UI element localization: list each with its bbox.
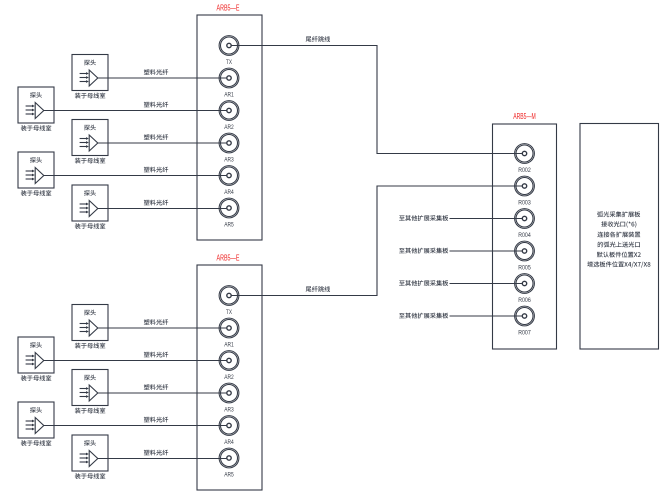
wire: plastic fiber bottom probe1 to AR1 <box>98 327 227 329</box>
probe sensor bottom-5 (探头, 装于母线室) <box>72 435 108 479</box>
connector AR1 (bottom ARB5-E) <box>219 318 239 348</box>
probe sensor bottom-4 (探头, 装于母线室) <box>18 402 54 446</box>
connector TX (bottom ARB5-E) <box>219 286 239 316</box>
connector AR1 (top ARB5-E) <box>219 68 239 98</box>
wire: plastic fiber bottom probe4 to AR4 <box>44 425 227 427</box>
label 尾纤跳线 (bottom) <box>306 286 330 292</box>
wire: plastic fiber top probe3 to AR3 <box>98 142 227 144</box>
probe sensor bottom-1 (探头, 装于母线室) <box>72 305 108 349</box>
label 塑料光纤 (top AR1 fiber) <box>144 69 168 75</box>
label 塑料光纤 (bottom AR4 fiber) <box>144 417 168 423</box>
label 至其他扩展采集板 (R006) <box>399 280 448 286</box>
wire: to other expansion board into R004 <box>450 218 523 220</box>
connector R006 (ARB5-M) <box>515 274 535 304</box>
svg-text:AR5: AR5 <box>224 472 234 478</box>
wire: plastic fiber bottom probe2 to AR2 <box>44 360 227 362</box>
svg-text:AR4: AR4 <box>224 440 234 446</box>
svg-text:AR4: AR4 <box>224 190 234 196</box>
svg-text:TX: TX <box>226 60 232 66</box>
probe sensor top-3 (探头, 装于母线室) <box>72 120 108 164</box>
svg-text:ARB5—E: ARB5—E <box>217 3 240 12</box>
label 至其他扩展采集板 (R004) <box>399 215 448 221</box>
connector AR5 (bottom ARB5-E) <box>219 448 239 478</box>
wire: to other expansion board into R007 <box>450 315 523 317</box>
svg-text:R002: R002 <box>518 168 531 174</box>
connector R005 (ARB5-M) <box>515 241 535 271</box>
board ARB5-E (bottom) outline <box>197 265 262 490</box>
svg-text:AR2: AR2 <box>224 375 234 381</box>
label 塑料光纤 (top AR4 fiber) <box>144 167 168 173</box>
connector R004 (ARB5-M) <box>515 209 535 239</box>
svg-text:ARB5—M: ARB5—M <box>513 112 536 121</box>
label 至其他扩展采集板 (R007) <box>399 313 448 319</box>
wire: plastic fiber bottom probe3 to AR3 <box>98 392 227 394</box>
label 塑料光纤 (top AR5 fiber) <box>144 200 168 206</box>
probe sensor top-2 (探头, 装于母线室) <box>18 87 54 131</box>
svg-text:AR3: AR3 <box>224 407 234 413</box>
svg-text:R003: R003 <box>518 200 531 206</box>
connector R002 (ARB5-M) <box>515 144 535 174</box>
board label ARB5-M <box>513 112 536 121</box>
probe sensor bottom-2 (探头, 装于母线室) <box>18 337 54 381</box>
note box: 弧光采集扩展板说明 <box>580 124 659 350</box>
wire: plastic fiber top probe4 to AR4 <box>44 175 227 177</box>
connector R007 (ARB5-M) <box>515 306 535 336</box>
board ARB5-E (top) outline <box>197 15 262 240</box>
label 塑料光纤 (top AR2 fiber) <box>144 102 168 108</box>
probe sensor top-4 (探头, 装于母线室) <box>18 152 54 196</box>
label 塑料光纤 (bottom AR3 fiber) <box>144 384 168 390</box>
svg-text:R004: R004 <box>518 233 531 239</box>
probe sensor top-5 (探头, 装于母线室) <box>72 185 108 229</box>
wire: pigtail TX(top) to R002 <box>231 46 522 154</box>
connector AR5 (top ARB5-E) <box>219 198 239 228</box>
label 塑料光纤 (bottom AR1 fiber) <box>144 319 168 325</box>
connector AR3 (top ARB5-E) <box>219 133 239 163</box>
connector AR4 (bottom ARB5-E) <box>219 416 239 446</box>
svg-text:AR1: AR1 <box>224 342 234 348</box>
wire: plastic fiber bottom probe5 to AR5 <box>98 458 227 460</box>
connector AR2 (bottom ARB5-E) <box>219 351 239 381</box>
svg-text:AR1: AR1 <box>224 92 234 98</box>
wire: plastic fiber top probe5 to AR5 <box>98 208 227 210</box>
connector AR4 (top ARB5-E) <box>219 166 239 196</box>
board label ARB5-E (bottom) <box>217 253 240 262</box>
label 尾纤跳线 (top) <box>306 36 330 42</box>
wire: to other expansion board into R006 <box>450 283 523 285</box>
connector AR3 (bottom ARB5-E) <box>219 383 239 413</box>
svg-text:ARB5—E: ARB5—E <box>217 253 240 262</box>
connector R003 (ARB5-M) <box>515 176 535 206</box>
board label ARB5-E (top) <box>217 3 240 12</box>
probe sensor top-1 (探头, 装于母线室) <box>72 55 108 99</box>
label 塑料光纤 (bottom AR5 fiber) <box>144 450 168 456</box>
wire: plastic fiber top probe2 to AR2 <box>44 110 227 112</box>
svg-text:R007: R007 <box>518 330 531 336</box>
connector TX (top ARB5-E) <box>219 36 239 66</box>
wire: to other expansion board into R005 <box>450 250 523 252</box>
svg-text:R005: R005 <box>518 265 531 271</box>
wire: pigtail TX(bottom) to R003 <box>231 186 522 296</box>
connector AR2 (top ARB5-E) <box>219 101 239 131</box>
svg-text:R006: R006 <box>518 298 531 304</box>
wire: plastic fiber top probe1 to AR1 <box>98 77 227 79</box>
svg-text:AR3: AR3 <box>224 157 234 163</box>
probe sensor bottom-3 (探头, 装于母线室) <box>72 370 108 414</box>
svg-text:TX: TX <box>226 310 232 316</box>
label 塑料光纤 (top AR3 fiber) <box>144 134 168 140</box>
svg-text:AR2: AR2 <box>224 125 234 131</box>
label 塑料光纤 (bottom AR2 fiber) <box>144 352 168 358</box>
board ARB5-M outline <box>493 124 557 349</box>
svg-text:AR5: AR5 <box>224 222 234 228</box>
label 至其他扩展采集板 (R005) <box>399 248 448 254</box>
